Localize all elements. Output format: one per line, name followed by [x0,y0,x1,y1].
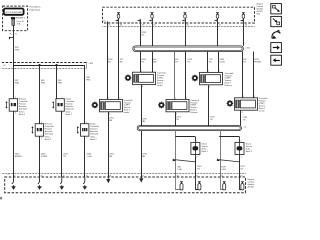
junction block internal circuit at pin 46 [117,12,120,14]
camshaft position sensor A3 body [235,98,258,110]
wire actuator 1 to ECM [13,111,15,177]
camshaft position sensor A1 body [99,99,122,111]
wire to actuator 4 [84,65,86,124]
ECM input arrow 3 [60,177,62,184]
inline terminal [10,37,14,39]
wire C101 to CMP sensor A pin1 [140,52,142,73]
junction node [39,64,41,66]
svg-text:Fuse Block -Underhood: Fuse Block -Underhood [29,7,41,12]
svg-text:58: 58 [186,24,188,26]
svg-text:1: 1 [15,97,16,99]
svg-text:2: 2 [15,112,16,114]
svg-text:2: 2 [196,156,197,158]
svg-text:1: 1 [208,71,209,73]
wire fuse output [13,25,15,65]
wire to C101 3 [185,23,187,46]
svg-text:2: 2 [219,71,220,73]
inline connector C2 low reference bus [137,126,241,131]
svg-text:57: 57 [142,24,144,26]
svg-text:17: 17 [219,24,221,26]
ECM input arrow 1 [12,177,14,184]
svg-text:ENGINE 1: ENGINE 1 [16,18,25,20]
svg-text:1: 1 [175,98,176,100]
icon pan [272,32,280,39]
wire C101 to CMP sensor E pin1 [242,52,244,98]
ECM input arrow 5 [106,179,110,183]
junction block internal circuit at pin 30 [151,12,154,14]
junction node [56,64,58,66]
svg-text:J 313: J 313 [245,47,250,49]
svg-text:21: 21 [15,33,17,35]
camshaft actuator solenoid Q4 body [81,124,89,137]
svg-text:1: 1 [62,97,63,99]
svg-text:2: 2 [41,137,42,139]
svg-text:2: 2 [186,98,187,100]
harness dotted line above ECM [2,173,246,175]
knock sensor 1 shield left [175,131,177,162]
svg-text:2: 2 [254,96,255,98]
knock sensor 2 lead [239,137,241,143]
camshaft position sensor A2 body [166,99,189,111]
camshaft actuator solenoid Q1 direction arrows [6,102,8,107]
ECM input arrow 4 [83,177,85,184]
wire C101 to CMP sensor D pin2 [218,52,220,73]
svg-text:C2: C2 [7,174,9,176]
wire ECM to CMP sensor B signal [118,23,120,99]
splice bus wire [13,65,85,67]
svg-text:3: 3 [209,86,210,88]
pin output arrows [115,20,118,22]
svg-text:75: 75 [108,24,110,26]
svg-text:2: 2 [86,137,87,139]
page corner mark [0,197,2,200]
ECM termination 3 [221,177,225,190]
icon zoom out [271,16,282,26]
svg-text:J 2: J 2 [243,127,246,129]
svg-text:1: 1 [86,122,87,124]
HOT IN RUN banner [4,9,24,15]
wire actuator 3 to ECM [61,111,63,177]
fuse F17 [11,17,15,19]
wire sensor B1 low ref to ECM [141,85,143,178]
wire C101 to CMP sensor C pin2 [185,52,187,100]
camshaft actuator solenoid Q1 body [9,99,17,112]
svg-text:X4: X4 [103,21,105,23]
wire to actuator 1 [13,65,15,99]
knock sensor 2 signal lead [239,155,241,157]
svg-text:2: 2 [241,156,242,158]
wire ECM to CMP sensor B 5V [107,23,109,99]
wire to C101 1 [140,23,142,46]
knock sensor 2 shield top [219,136,239,138]
wire sensor B2 low ref [208,85,210,126]
wire actuator 4 to ECM [84,136,86,177]
camshaft position sensor B2 body [200,72,223,84]
wire to C101 5 [243,23,245,46]
icon next [271,43,282,53]
wire to actuator 2 [39,65,41,124]
svg-text:S1: S1 [3,65,5,67]
icon zoom in [271,4,282,14]
engine control module dashed box [103,7,255,23]
camshaft position sensor B1 body [133,72,156,84]
svg-text:HOT IN RUN/START: HOT IN RUN/START [5,11,23,14]
inline connector C101 [133,46,244,52]
wire sensor A2 low ref [175,112,177,126]
ECM termination 4 [240,177,243,190]
ECM input arrow 2 [38,177,40,184]
wire sensor A1 low ref to ECM [108,112,110,179]
knock sensor 2 shield left [220,131,222,162]
wire to C101 4 [217,23,219,46]
junction block internal circuit at pin 62 [184,12,187,14]
junction block internal circuit at pin 7 [242,12,245,14]
knock sensor 1 signal wire to ECM [195,156,197,177]
knock sensor 2 low wire to ECM [220,161,222,177]
icon previous [271,55,282,65]
junction block internal circuit at pin 19 [216,12,219,14]
knock sensor 1 low wire to ECM [175,161,177,177]
svg-text:33: 33 [245,24,247,26]
svg-text:1: 1 [141,70,142,72]
knock sensor 1 signal lead [195,155,197,157]
wire C101 to CMP sensor A pin2 [152,52,154,73]
knock sensor 1 lead [195,137,197,143]
twisted pair crossover [174,160,195,162]
svg-text:2: 2 [152,70,153,72]
engine control module dashed box [5,177,246,193]
camshaft actuator solenoid Q3 body [56,99,64,112]
wire C101 to CMP sensor D pin1 [207,52,209,73]
camshaft actuator solenoid Q4 direction arrows [77,127,79,132]
wire to C101 2 [152,23,154,46]
harness boundary dotted line [2,68,87,70]
knock sensor 2 body [235,142,244,154]
ECM termination 1 [176,177,182,190]
camshaft actuator solenoid Q2 direction arrows [32,127,34,132]
ECM termination 2 [196,177,200,190]
svg-text:3: 3 [176,113,177,115]
svg-text:2: 2 [119,98,120,100]
svg-text:3: 3 [142,86,143,88]
svg-text:73: 73 [153,24,155,26]
knock sensor 1 shield top [175,136,195,138]
camshaft actuator solenoid Q3 direction arrows [53,102,55,107]
knock sensor 2 signal wire to ECM [239,156,241,177]
svg-text:3: 3 [242,112,243,114]
svg-text:3: 3 [109,113,110,115]
harness dotted line below ECM [103,26,255,28]
knock sensor 1 body [191,142,200,154]
wire to actuator 3 [56,65,58,99]
svg-text:J 313: J 313 [88,63,93,65]
harness boundary dashed line [2,62,87,64]
wire sensor A3 low ref [240,110,242,125]
svg-text:66: 66 [120,24,122,26]
wire C101 to CMP sensor C pin1 [174,52,176,100]
svg-text:1: 1 [41,122,42,124]
fuse block underhood dashed box [3,6,28,31]
wire C101 to CMP sensor E pin2 [253,52,255,98]
ECM input arrow 6 [139,178,143,182]
svg-text:1: 1 [243,96,244,98]
svg-text:1: 1 [108,98,109,100]
camshaft actuator solenoid Q2 body [35,124,43,137]
wire actuator 2 to ECM [39,136,41,177]
twisted pair crossover [219,160,240,162]
